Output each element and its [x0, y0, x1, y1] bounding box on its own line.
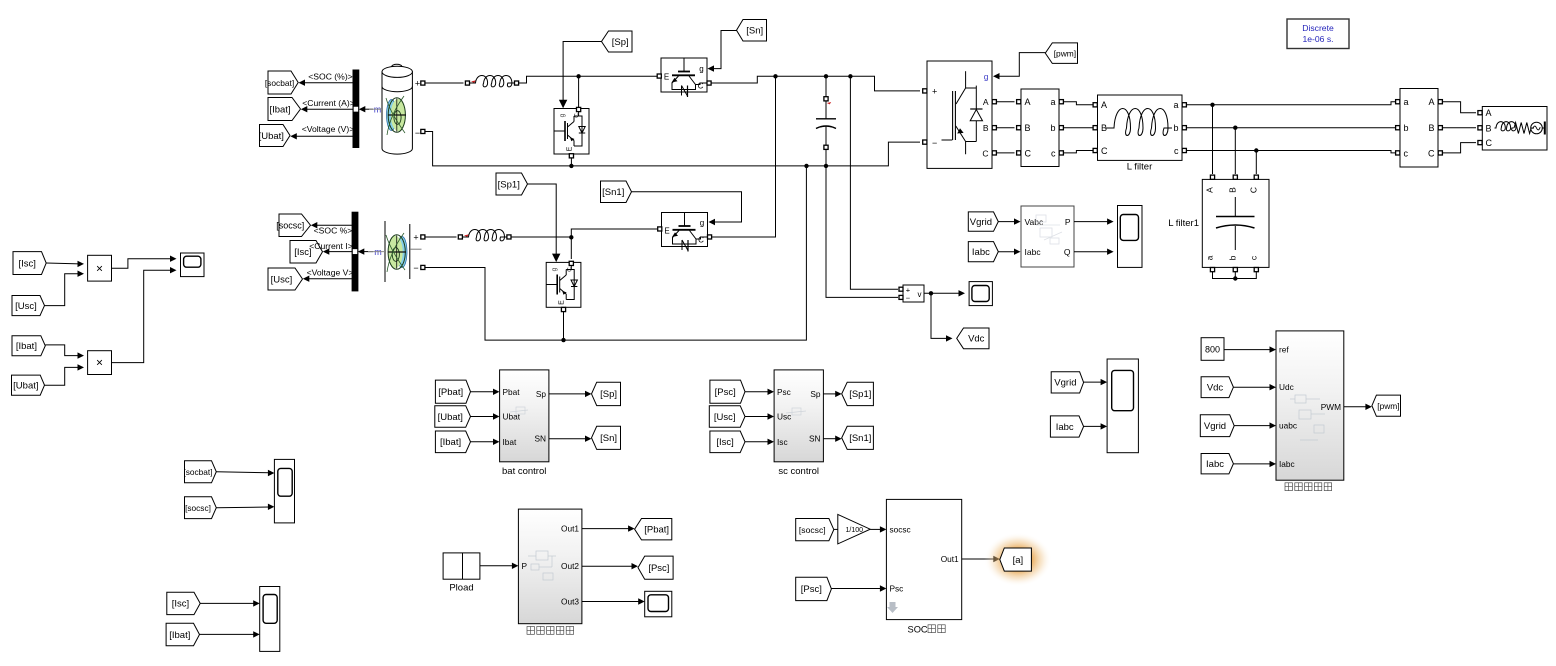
svg-text:−: − [415, 128, 420, 138]
source A port [1478, 111, 1482, 115]
svg-text:P: P [1065, 217, 1071, 227]
wire [Usc] to product1 [45, 274, 80, 306]
wire DC+ to inverter + [870, 76, 920, 91]
svg-text:Discrete: Discrete [1302, 23, 1334, 33]
svg-text:g: g [699, 65, 703, 74]
IGBT1 E port [657, 74, 661, 78]
wire battery - to bottom rail [425, 132, 920, 166]
gain block 1/100 [838, 514, 870, 544]
from tag [Ibat] bottom [166, 623, 199, 645]
svg-text:[Sp]: [Sp] [600, 389, 617, 400]
svg-text:[Psc]: [Psc] [648, 563, 669, 574]
junction phase a [1210, 103, 1214, 107]
wire Vgrid to inverter control [1234, 425, 1271, 427]
chopper IGBT3 (battery buck) [554, 109, 589, 155]
svg-text:[socsc]: [socsc] [799, 525, 826, 535]
svg-text:b: b [1173, 123, 1178, 133]
wire L filter a to VI2 a [1187, 102, 1396, 105]
svg-text:PWM: PWM [1321, 402, 1341, 412]
from tag [Ibat] left [12, 336, 45, 356]
goto tag [a] [1000, 548, 1032, 571]
junction chopper1 E [569, 164, 573, 168]
wire Iabc to scope5 [1084, 425, 1103, 427]
from tag [pwm] [1045, 43, 1077, 64]
svg-text:g: g [551, 267, 558, 271]
svg-text:C: C [1248, 187, 1258, 193]
svg-text:[Ibat]: [Ibat] [269, 104, 290, 115]
goto tag [Usc] [268, 268, 303, 290]
svg-text:[a]: [a] [1013, 555, 1024, 566]
goto tag [socsc] [279, 214, 311, 237]
svg-text:[Pbat]: [Pbat] [438, 387, 463, 398]
svg-text:C: C [1101, 146, 1108, 156]
wire L filter c to VI2 c [1187, 151, 1396, 153]
svg-text:Ubat: Ubat [503, 412, 521, 422]
wire inverter C to VI1 [997, 152, 1015, 154]
wire VI1 b to L filter B [1064, 127, 1093, 129]
svg-text:g: g [559, 113, 566, 117]
bus selector BusSelector1 [353, 70, 359, 148]
svg-text:Vgrid: Vgrid [1204, 421, 1226, 432]
VI2 c port [1396, 151, 1400, 155]
wire [Sp] to chopper1 gate [563, 42, 601, 101]
scope current scope [260, 587, 280, 652]
svg-text:B: B [1025, 123, 1031, 133]
wire [Sp1] to chopper2 gate [528, 184, 557, 254]
wire [Isc] to product1 [46, 262, 79, 265]
L filter b port [1182, 126, 1186, 130]
svg-text:1e-06 s.: 1e-06 s. [1302, 34, 1333, 44]
wire inverter B to VI1 [997, 127, 1015, 129]
wire Vgrid to scope5 [1084, 381, 1103, 383]
wire [Isc] to sc control [745, 441, 770, 443]
scope Vdc scope [969, 282, 992, 306]
wire [Pbat] to bat control [471, 391, 496, 393]
scope filter scope [645, 591, 672, 617]
inverter - port [923, 140, 927, 144]
svg-text:[Sp1]: [Sp1] [498, 179, 520, 190]
Vm - port [899, 295, 903, 299]
svg-text:A: A [1025, 97, 1031, 107]
scope soc scope [274, 459, 294, 523]
goto tag [Pbat] out [635, 519, 672, 540]
wire node to chopper2 C [570, 237, 572, 259]
from tag [Usc] left [12, 296, 45, 316]
junction DC+ c [848, 74, 852, 78]
wire VI1 a to L filter A [1064, 102, 1093, 105]
power measurement block PQ [1021, 206, 1074, 267]
svg-text:800: 800 [1205, 344, 1220, 354]
from tag Vgrid scope5 [1051, 372, 1083, 393]
from tag [Sp] top [602, 31, 633, 52]
VI1 b port [1059, 126, 1063, 130]
VI2 A port [1438, 100, 1442, 104]
wire [Ibat] to scope7 [200, 633, 256, 635]
subsystem inverter control [1276, 331, 1344, 480]
svg-text:Iabc: Iabc [1206, 459, 1224, 470]
battery block Battery [382, 64, 420, 154]
wire [Sn1] to IGBT2 gate [632, 192, 742, 222]
svg-text:A: A [983, 97, 989, 107]
junction phase b [1233, 126, 1237, 130]
wire battery m to bus selector [364, 108, 373, 110]
wire product1 to scope [112, 259, 173, 269]
svg-text:×: × [96, 356, 103, 370]
goto tag [socbat] [268, 71, 298, 94]
chopper2 C port [569, 261, 573, 265]
svg-text:Ibat: Ibat [503, 437, 518, 447]
subsystem low pass filter [518, 509, 582, 624]
wire [socsc] to scope6 [216, 506, 270, 509]
L filter block [1098, 95, 1183, 160]
Vm + port [899, 287, 903, 291]
wire battery + to inductor [425, 82, 464, 84]
svg-text:−: − [932, 138, 937, 148]
svg-text:Vdc: Vdc [968, 334, 985, 345]
L filter a port [1182, 103, 1186, 107]
battery - port [421, 129, 425, 133]
constant block 800 [1201, 338, 1224, 361]
svg-text:socsc: socsc [890, 524, 911, 534]
svg-text:[Isc]: [Isc] [172, 599, 189, 610]
voltage measurement Vm [903, 285, 924, 303]
svg-text:SOC: SOC [908, 625, 928, 635]
svg-text:L filter1: L filter1 [1168, 218, 1199, 229]
wire b to L filter1 [1234, 128, 1236, 174]
wire bus to [Isc] [327, 251, 353, 253]
goto tag [Sp] out [592, 382, 621, 405]
svg-text:A: A [1205, 187, 1215, 193]
svg-text:Vdc: Vdc [1207, 382, 1224, 393]
from tag [Usc] ctrl [709, 406, 745, 428]
from tag [Psc] [710, 380, 745, 403]
wire chopper1 E to bottom rail [570, 158, 572, 166]
wire inductor2 to node [511, 236, 571, 238]
svg-text:b: b [1227, 255, 1237, 260]
from tag [Sn] [737, 20, 767, 42]
supercap - port [421, 265, 425, 269]
svg-text:+: + [413, 233, 418, 243]
goto tag [pwm] out [1372, 395, 1401, 416]
goto tag [Psc] out [638, 556, 673, 579]
wire SOC control Out1 to [a] [962, 558, 996, 560]
junction Vm out [929, 291, 933, 295]
from tag [Ubat] left [12, 375, 45, 395]
wire supercap - to sc rail [425, 166, 806, 340]
goto tag [Sp1] out [842, 382, 874, 405]
L filter1 a port [1210, 268, 1214, 272]
wire chopper2 E to sc rail [563, 312, 565, 340]
constant block Pload [443, 553, 480, 579]
svg-text:Out1: Out1 [941, 554, 959, 564]
svg-text:c: c [1051, 148, 1056, 158]
three-phase VI measurement 2 [1400, 89, 1438, 168]
wire [Ubat] to product2 [45, 367, 80, 385]
supercap + port [421, 235, 425, 239]
IGBT2 (sc boost) [662, 213, 708, 252]
chopper2 E port [561, 307, 565, 311]
L filter c port [1182, 148, 1186, 152]
wire L filter b to VI2 b [1187, 127, 1396, 129]
wire [Usc] to sc control [745, 416, 770, 418]
product block 1 [88, 255, 112, 281]
wire c to L filter1 [1255, 151, 1257, 175]
scope grid scope [1107, 359, 1138, 453]
svg-text:[Sn]: [Sn] [746, 26, 763, 37]
wire PQ Q to scope [1074, 251, 1109, 253]
svg-text:[pwm]: [pwm] [1377, 401, 1399, 411]
wire L filter1 neutral bus [1213, 272, 1257, 279]
L filter1 c port [1254, 268, 1258, 272]
junction bottom rail at sc riser [804, 164, 808, 168]
inverter C port [992, 151, 996, 155]
L filter B port [1093, 126, 1097, 130]
from tag Vgrid ctrl [1200, 415, 1234, 437]
svg-text:a: a [1050, 97, 1055, 107]
VI1 C port [1017, 151, 1021, 155]
svg-text:[Ibat]: [Ibat] [169, 630, 190, 641]
svg-text:C: C [1486, 138, 1493, 148]
wire VI2 B to source B [1443, 127, 1476, 129]
wire filter Out2 to [Psc] [582, 565, 634, 567]
wire sc control Sp to [Sp1] [823, 393, 837, 395]
three-phase VI measurement 1 [1021, 89, 1059, 167]
svg-text:[Sn1]: [Sn1] [849, 433, 871, 444]
wire PQ P to scope [1074, 221, 1109, 223]
inverter B port [992, 126, 996, 130]
inverter + port [923, 89, 927, 93]
svg-text:[Isc]: [Isc] [716, 437, 733, 448]
svg-text:Sp: Sp [536, 389, 547, 399]
svg-text:sc control: sc control [778, 466, 819, 477]
wire inductor to DC+ rail [519, 76, 659, 83]
wire bat control SN to [Sn] [549, 438, 587, 440]
wire Iabc to PQ [998, 251, 1016, 253]
svg-text:Out2: Out2 [561, 561, 579, 571]
wire bus to [Ubat] [295, 135, 354, 137]
svg-text:Q: Q [1064, 247, 1071, 257]
junction DC+ a [773, 74, 777, 78]
svg-text:[socsc]: [socsc] [276, 221, 304, 231]
wire supercap m to bus selector [363, 251, 373, 253]
svg-text:Sp: Sp [810, 389, 821, 399]
from tag [Psc] bottom [796, 577, 832, 600]
from tag [socbat] bottom [185, 461, 217, 483]
from tag Iabc ctrl [1201, 454, 1233, 474]
junction chopper1-C on rail [576, 74, 580, 78]
wire DC- to Vm minus [826, 166, 898, 298]
L filter1 A port [1210, 175, 1214, 179]
wire inverter control PWM to [pwm] [1344, 406, 1368, 408]
wire bus to [socbat] [303, 82, 354, 84]
wire IGBT2 C to DC+ rail [712, 76, 776, 237]
VI1 A port [1017, 100, 1021, 104]
wire supercap + to inductor2 [425, 236, 457, 238]
chopper1 C port [577, 107, 581, 111]
svg-text:[Pbat]: [Pbat] [644, 525, 669, 536]
svg-text:A: A [1101, 100, 1107, 110]
svg-text:SN: SN [534, 434, 546, 444]
svg-text:c: c [1174, 146, 1179, 156]
svg-text:b: b [1050, 123, 1055, 133]
bus selector BusSelector2 [352, 212, 358, 291]
svg-text:Out1: Out1 [561, 524, 579, 534]
wire bus to [Ibat] [305, 108, 354, 110]
wire product2 to scope [112, 270, 173, 362]
svg-text:Pload: Pload [449, 583, 473, 594]
IGBT1 C port [707, 81, 711, 85]
wire Iabc to inverter control [1233, 463, 1271, 465]
wire [socsc] to gain [834, 528, 838, 530]
svg-text:B: B [1227, 187, 1237, 193]
svg-text:[Ubat]: [Ubat] [259, 131, 284, 142]
from tag [Ubat] ctrl [435, 406, 471, 428]
highlight glow for tag [a] [984, 533, 1052, 587]
wire Vdc to inverter control [1233, 386, 1271, 388]
svg-text:[Usc]: [Usc] [271, 274, 293, 285]
junction bottom rail at cap [824, 164, 828, 168]
svg-text:E: E [559, 300, 566, 305]
svg-text:<SOC (%)>: <SOC (%)> [308, 72, 352, 82]
wire VI2 A to source A [1443, 102, 1476, 113]
svg-text:Out3: Out3 [561, 597, 579, 607]
svg-text:<Current I>: <Current I> [309, 241, 352, 251]
goto tag Vdc [957, 328, 989, 349]
goto tag [Sn] out [592, 426, 621, 449]
svg-text:Iabc: Iabc [1025, 247, 1042, 257]
svg-text:[Ubat]: [Ubat] [438, 412, 463, 423]
subsystem sc control [774, 370, 823, 462]
svg-text:[socbat]: [socbat] [265, 78, 294, 88]
wire 800 to inverter control [1224, 349, 1272, 351]
wire inverter A to VI1 [997, 101, 1015, 103]
wire capacitor top to rail [825, 76, 827, 96]
goto tag [Ibat] [268, 98, 301, 121]
wire capacitor bottom to rail [825, 150, 827, 166]
wire Vm out to Vdc tag [931, 293, 948, 338]
svg-text:c: c [1248, 255, 1258, 260]
wire Pload to filter P [480, 565, 514, 567]
svg-text:E: E [664, 73, 669, 82]
goto tag [Ubat] [260, 125, 291, 147]
wire IGBT1 C to DC+ rail [711, 76, 870, 83]
svg-text:[socsc]: [socsc] [185, 503, 211, 513]
source B port [1478, 126, 1482, 130]
wire [Ibat] to product2 [45, 345, 79, 356]
svg-text:a: a [1205, 255, 1215, 260]
svg-text:SN: SN [809, 434, 821, 444]
svg-text:Vgrid: Vgrid [1054, 378, 1076, 389]
svg-text:B: B [1486, 123, 1492, 133]
svg-text:[Ubat]: [Ubat] [13, 380, 38, 391]
chopper1 E port [569, 154, 573, 158]
svg-text:a: a [1173, 100, 1178, 110]
svg-text:C: C [1025, 148, 1032, 158]
wire [Psc] to SOC control [831, 588, 882, 590]
DC link capacitor C1 [816, 97, 836, 150]
svg-text:[Psc]: [Psc] [715, 387, 736, 398]
svg-text:C: C [1428, 148, 1435, 158]
VI1 a port [1059, 100, 1063, 104]
svg-text:+: + [932, 86, 937, 96]
svg-text:<Voltage V>: <Voltage V> [307, 268, 354, 278]
wire [socbat] to scope6 [216, 472, 270, 473]
wire [Sn] to IGBT1 gate [713, 31, 737, 69]
junction DC+ b [824, 74, 828, 78]
svg-text:Udc: Udc [1279, 382, 1294, 392]
svg-text:[Ibat]: [Ibat] [440, 437, 461, 448]
wire [pwm] to inverter gate [998, 53, 1045, 77]
svg-text:Isc: Isc [777, 437, 788, 447]
from tag [Isc] ctrl [710, 431, 745, 453]
from tag [Sp1] [496, 173, 528, 195]
svg-text:1/100: 1/100 [846, 527, 864, 534]
junction chopper2 E rail [561, 338, 565, 342]
inductor L1 [465, 81, 469, 85]
L filter A port [1093, 103, 1097, 107]
from tag Iabc (PQ) [968, 242, 998, 262]
svg-text:Iabc: Iabc [972, 247, 990, 258]
svg-text:bat control: bat control [502, 466, 546, 477]
svg-text:ref: ref [1279, 345, 1289, 355]
svg-text:A: A [1428, 97, 1434, 107]
L filter1 B port [1233, 175, 1237, 179]
IGBT1 (battery boost) [661, 58, 707, 97]
wire filter Out3 to scope [582, 601, 640, 603]
svg-text:Psc: Psc [777, 387, 791, 397]
svg-text:C: C [982, 148, 988, 158]
L filter1 C port [1254, 175, 1258, 179]
svg-text:B: B [1428, 123, 1434, 133]
L filter C port [1093, 148, 1097, 152]
svg-text:b: b [1404, 123, 1409, 133]
svg-text:E: E [664, 227, 669, 236]
svg-text:[Isc]: [Isc] [19, 258, 36, 269]
supercapacitor block [385, 221, 422, 282]
svg-text:B: B [983, 123, 989, 133]
svg-text:[Psc]: [Psc] [801, 584, 822, 595]
low pass filter label (CJK) [527, 627, 574, 635]
VI2 C port [1438, 151, 1442, 155]
svg-text:<Current (A)>: <Current (A)> [302, 98, 355, 108]
wire VI1 c to L filter C [1064, 151, 1093, 153]
L filter1 b port [1233, 268, 1237, 272]
svg-text:g: g [984, 72, 989, 82]
svg-text:−: − [906, 294, 911, 303]
wire Vm out [924, 292, 961, 294]
svg-text:C: C [574, 113, 581, 118]
svg-text:[Sn]: [Sn] [600, 433, 617, 444]
wire [Ibat] to bat control [471, 441, 496, 443]
VI2 a port [1396, 100, 1400, 104]
wire sc control SN to [Sn1] [823, 438, 837, 440]
svg-text:E: E [566, 146, 573, 151]
wire filter Out1 to [Pbat] [582, 528, 630, 530]
svg-text:[Sp1]: [Sp1] [849, 389, 871, 400]
wire bus to [socsc] [315, 224, 353, 226]
svg-text:−: − [413, 263, 418, 273]
from tag [socsc] bottom2 [185, 497, 217, 519]
svg-text:c: c [1404, 148, 1409, 158]
wire node to IGBT2 E [571, 229, 657, 237]
svg-text:Iabc: Iabc [1279, 459, 1295, 469]
wire bat control Sp to [Sp] [549, 393, 587, 395]
from tag Iabc scope5 [1050, 416, 1083, 437]
universal bridge inverter [927, 61, 992, 168]
from tag [Sn1] [601, 181, 632, 203]
svg-text:<SOC %>: <SOC %> [314, 226, 353, 236]
source C port [1478, 141, 1482, 145]
